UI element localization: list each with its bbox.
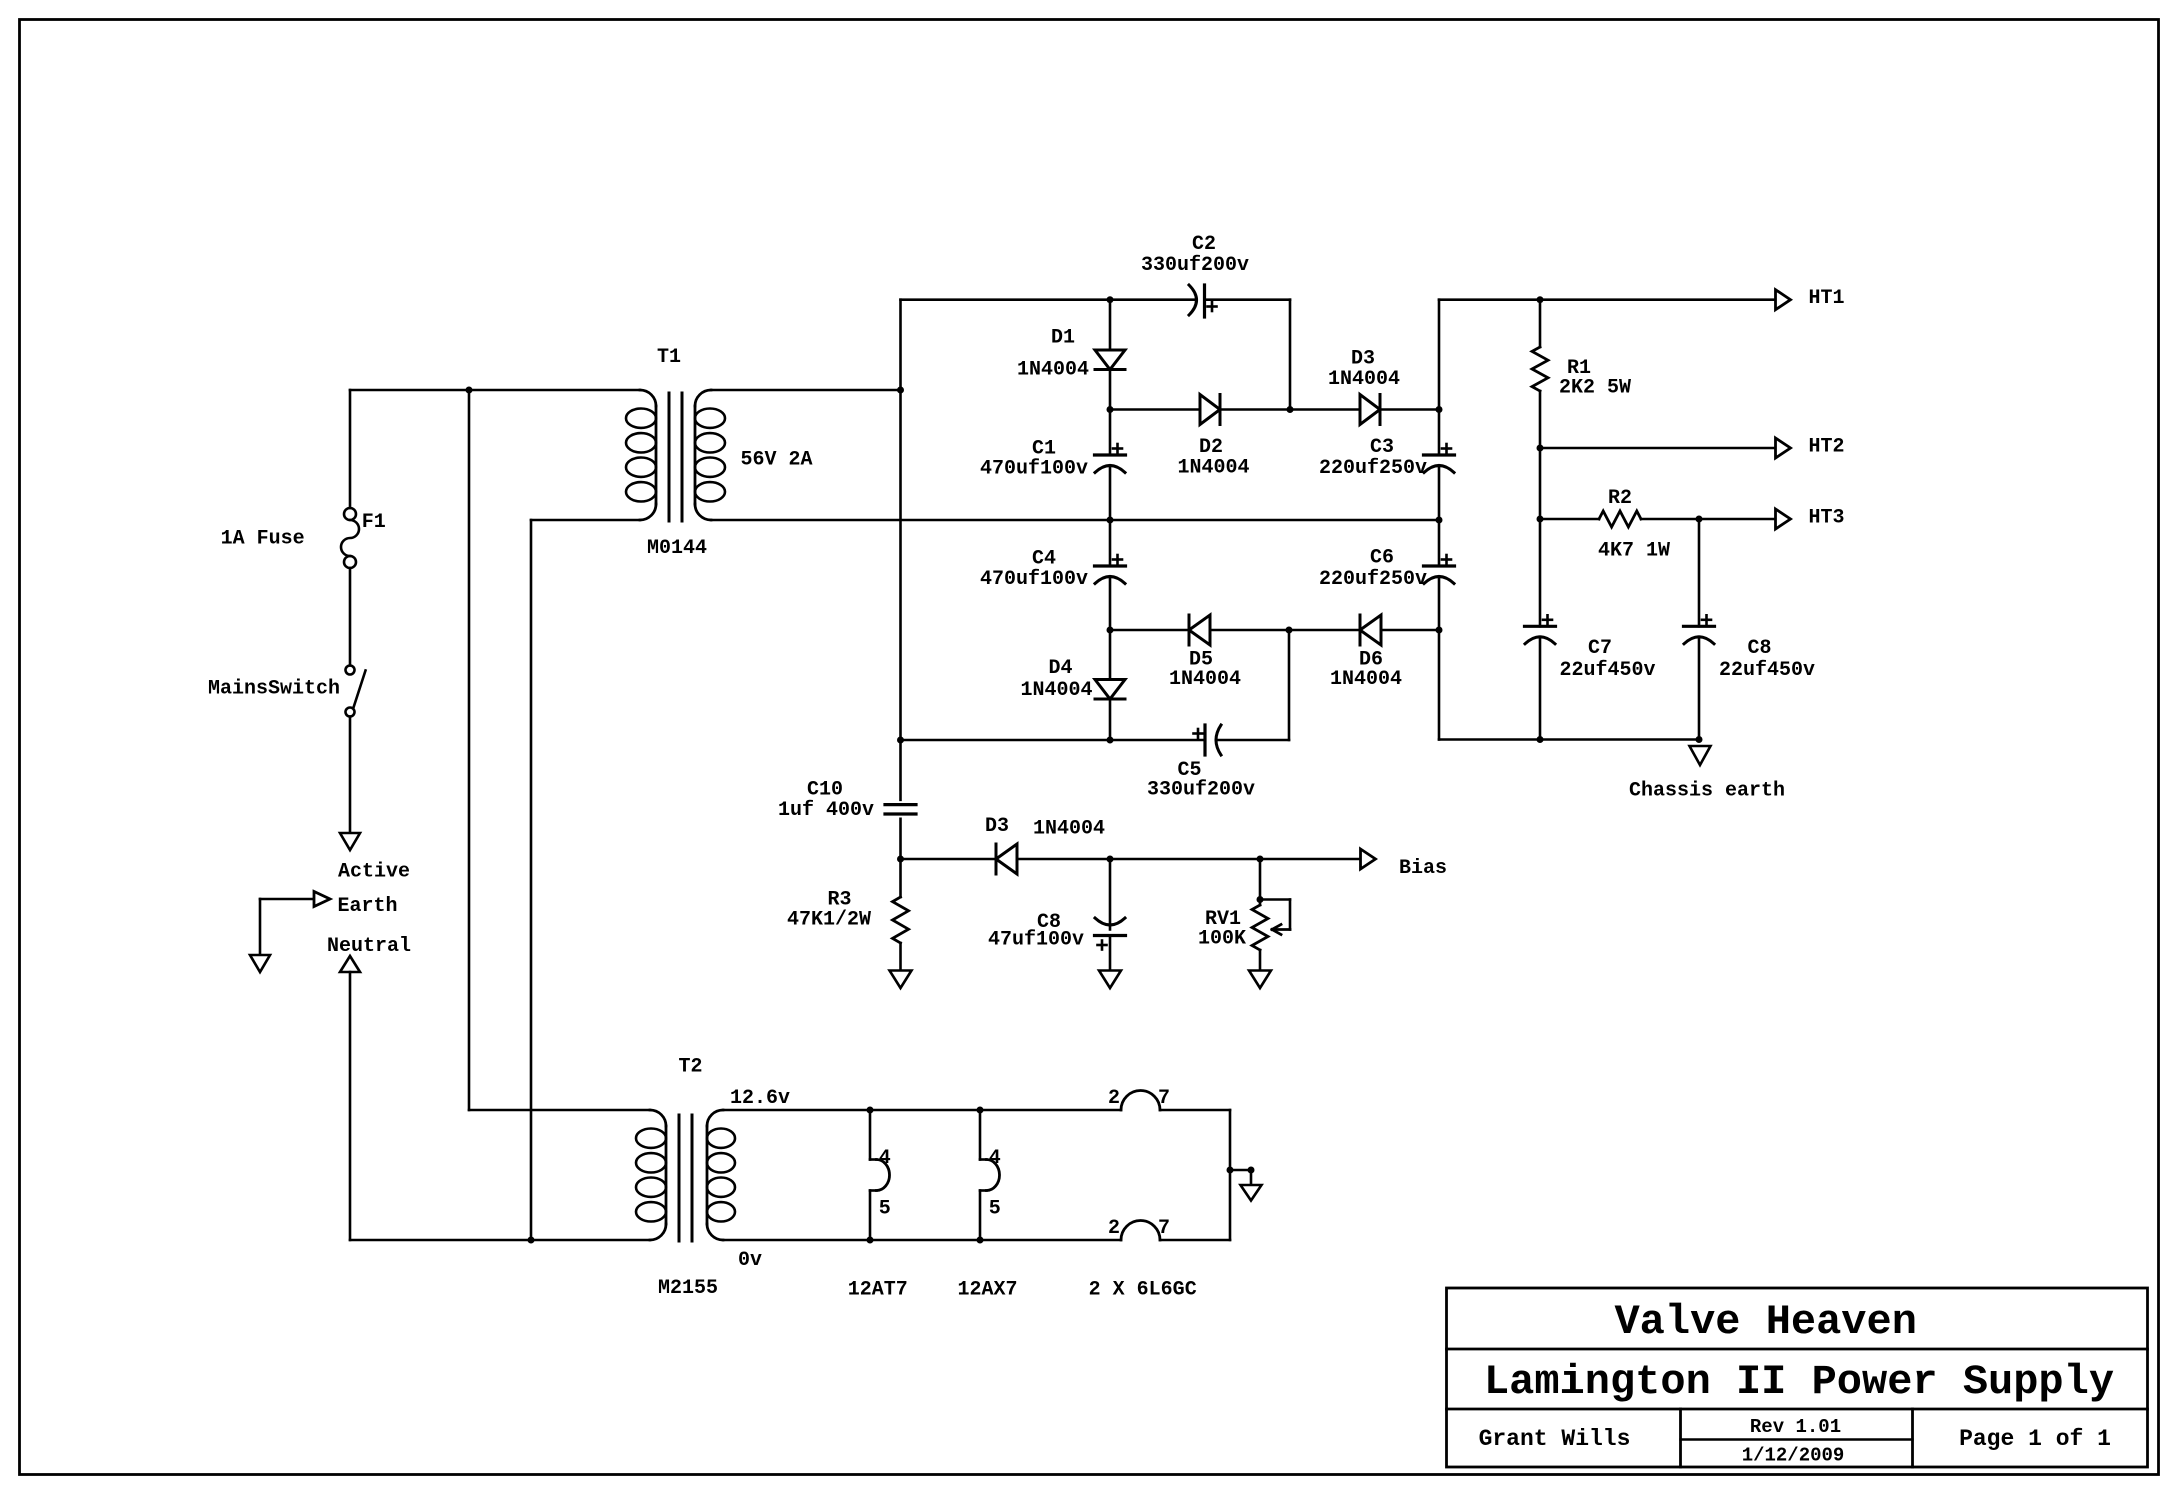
svg-text:Bias: Bias — [1399, 857, 1447, 880]
svg-text:2K2 5W: 2K2 5W — [1559, 377, 1631, 400]
svg-text:Active: Active — [338, 861, 410, 884]
svg-text:R2: R2 — [1608, 487, 1632, 510]
svg-text:12AX7: 12AX7 — [957, 1279, 1017, 1302]
svg-text:330uf200v: 330uf200v — [1147, 779, 1255, 802]
svg-text:T2: T2 — [678, 1056, 702, 1079]
svg-text:0v: 0v — [738, 1249, 762, 1272]
svg-text:1N4004: 1N4004 — [1033, 818, 1105, 841]
svg-text:1N4004: 1N4004 — [1017, 359, 1089, 382]
svg-text:5: 5 — [879, 1198, 891, 1221]
svg-text:220uf250v: 220uf250v — [1319, 457, 1427, 480]
svg-text:T1: T1 — [657, 346, 681, 369]
svg-text:22uf450v: 22uf450v — [1559, 659, 1655, 682]
svg-text:2 X 6L6GC: 2 X 6L6GC — [1089, 1279, 1197, 1302]
svg-text:5: 5 — [989, 1198, 1001, 1221]
svg-text:Chassis earth: Chassis earth — [1629, 780, 1785, 803]
svg-text:2: 2 — [1108, 1087, 1120, 1110]
svg-text:D1: D1 — [1051, 327, 1075, 350]
svg-text:470uf100v: 470uf100v — [980, 568, 1088, 591]
svg-text:4: 4 — [879, 1147, 891, 1170]
svg-text:C8: C8 — [1747, 637, 1771, 660]
svg-text:1/12/2009: 1/12/2009 — [1742, 1444, 1845, 1466]
svg-text:Valve Heaven: Valve Heaven — [1614, 1298, 1916, 1346]
svg-text:C7: C7 — [1588, 637, 1612, 660]
svg-text:Page 1 of 1: Page 1 of 1 — [1959, 1426, 2111, 1452]
svg-text:4K7 1W: 4K7 1W — [1598, 540, 1670, 563]
svg-text:Rev 1.01: Rev 1.01 — [1750, 1416, 1841, 1438]
svg-text:M0144: M0144 — [647, 537, 707, 560]
svg-text:1uf 400v: 1uf 400v — [778, 799, 874, 822]
svg-text:1A Fuse: 1A Fuse — [221, 528, 305, 551]
svg-text:12AT7: 12AT7 — [848, 1279, 908, 1302]
svg-text:2: 2 — [1108, 1217, 1120, 1240]
svg-text:22uf450v: 22uf450v — [1719, 659, 1815, 682]
svg-text:C2: C2 — [1192, 233, 1216, 256]
svg-text:100K: 100K — [1198, 928, 1246, 951]
svg-text:F1: F1 — [362, 511, 386, 534]
svg-text:C3: C3 — [1370, 436, 1394, 459]
svg-text:Grant Wills: Grant Wills — [1479, 1426, 1631, 1452]
svg-text:HT3: HT3 — [1808, 507, 1844, 530]
svg-text:47uf100v: 47uf100v — [988, 929, 1084, 952]
svg-text:1N4004: 1N4004 — [1328, 368, 1400, 391]
svg-text:7: 7 — [1158, 1217, 1170, 1240]
svg-text:470uf100v: 470uf100v — [980, 458, 1088, 481]
svg-text:1N4004: 1N4004 — [1177, 457, 1249, 480]
svg-text:220uf250v: 220uf250v — [1319, 568, 1427, 591]
svg-text:Neutral: Neutral — [327, 935, 411, 958]
svg-text:1N4004: 1N4004 — [1020, 679, 1092, 702]
svg-text:HT1: HT1 — [1808, 287, 1844, 310]
svg-text:C6: C6 — [1370, 547, 1394, 570]
svg-text:HT2: HT2 — [1808, 436, 1844, 459]
svg-text:1N4004: 1N4004 — [1169, 668, 1241, 691]
svg-text:330uf200v: 330uf200v — [1141, 254, 1249, 277]
svg-text:7: 7 — [1158, 1087, 1170, 1110]
svg-text:MainsSwitch: MainsSwitch — [208, 678, 340, 701]
svg-text:1N4004: 1N4004 — [1330, 668, 1402, 691]
svg-text:D3: D3 — [985, 815, 1009, 838]
svg-text:47K1/2W: 47K1/2W — [787, 908, 871, 931]
svg-text:12.6v: 12.6v — [730, 1087, 790, 1110]
svg-text:4: 4 — [989, 1147, 1001, 1170]
svg-text:M2155: M2155 — [658, 1277, 718, 1300]
svg-text:56V 2A: 56V 2A — [740, 449, 812, 472]
svg-text:D4: D4 — [1048, 657, 1072, 680]
svg-text:Earth: Earth — [337, 895, 397, 918]
svg-text:Lamington II Power Supply: Lamington II Power Supply — [1484, 1358, 2114, 1406]
